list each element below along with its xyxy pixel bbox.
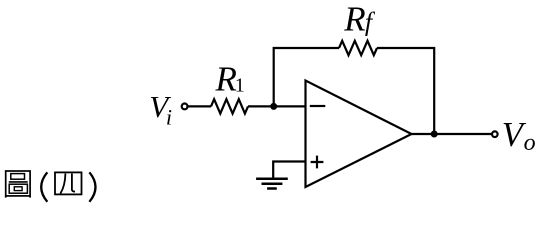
svg-text:1: 1 xyxy=(235,74,245,96)
svg-text:R: R xyxy=(343,0,365,39)
ground xyxy=(256,178,288,181)
wire: feedback top-right segment and vertical down to output node xyxy=(377,48,434,134)
op-amp plus sign (non-inverting input) xyxy=(311,156,324,169)
svg-text:R: R xyxy=(215,59,237,98)
wire: op-amp output to terminal xyxy=(412,133,492,135)
wire: input terminal to R1 xyxy=(188,105,211,107)
terminal Vo output open circle xyxy=(492,131,498,137)
terminal Vi input open circle xyxy=(182,104,188,110)
svg-text:i: i xyxy=(166,104,172,129)
svg-text:o: o xyxy=(524,130,535,156)
wire: non-inverting input to ground xyxy=(273,162,305,179)
op-amp U1 triangle xyxy=(306,81,412,188)
wire: R1 to op-amp inverting input through node xyxy=(248,105,306,107)
node B: junction dot at output xyxy=(431,131,438,138)
svg-text:f: f xyxy=(365,7,376,36)
resistor Rf xyxy=(339,41,377,55)
node A: junction dot at inverting input xyxy=(270,103,277,110)
resistor R1 xyxy=(211,99,248,113)
caption glyph: open parenthesis xyxy=(41,172,47,202)
op-amp minus sign (inverting input) xyxy=(310,105,326,107)
caption glyph: Chinese character Tu (figure) drawn as strokes xyxy=(6,171,30,198)
caption glyph: close parenthesis xyxy=(89,172,95,202)
wire: feedback top-left vertical from inverting-input node up and across to Rf xyxy=(274,48,339,106)
caption glyph: Chinese character Si (four) drawn as strokes xyxy=(55,172,82,194)
